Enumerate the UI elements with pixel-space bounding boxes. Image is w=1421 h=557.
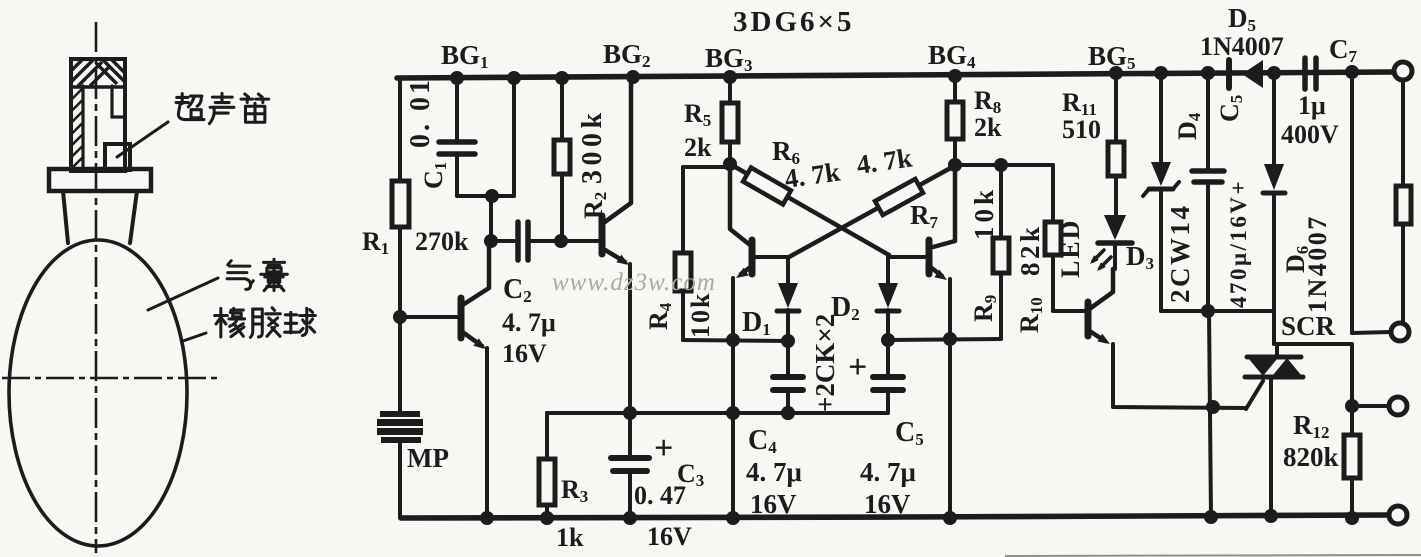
bulb device vertical centerline [95,22,98,553]
diode D5 on rail [1226,60,1232,88]
transistor BG5 [1085,302,1092,336]
svg-text:82k: 82k [1015,223,1045,276]
output terminal 1 [1394,62,1412,80]
svg-text:2k: 2k [974,113,1002,142]
resistor R3 [545,413,549,459]
svg-text:1N4007: 1N4007 [1303,214,1332,313]
resistor R1 [392,181,409,227]
resistor R12 [1344,435,1360,478]
resistor R5 [728,77,732,103]
capacitor C3 [628,413,632,456]
transistor BG4 [933,165,955,247]
bulb neck [63,191,68,243]
svg-text:4. 7μ: 4. 7μ [860,457,916,487]
svg-text:16V: 16V [502,339,547,368]
BG4 base wire [890,255,928,259]
resistor R10 [1051,165,1055,222]
svg-text:400V: 400V [1281,120,1339,149]
resistor R2 [560,78,564,140]
top supply rail wire [397,72,1392,78]
wire timing node horizontal [547,411,888,415]
transistor BG1 [402,315,458,319]
resistor R9 [999,165,1003,238]
svg-text:3DG6×5: 3DG6×5 [733,6,855,38]
svg-text:0. 01: 0. 01 [405,77,436,148]
svg-text:1N4007: 1N4007 [1200,32,1284,61]
node dot BG1 emitter ground [480,511,494,525]
capacitor C5 [886,340,890,375]
diode D2 [886,257,890,283]
svg-text:10k: 10k [969,186,999,240]
wire R3-C3 top [547,411,630,415]
capacitor C1 [455,78,459,140]
resistor R6 diagonal [730,164,889,255]
svg-text:10k: 10k [686,292,715,338]
svg-text:4. 7μ: 4. 7μ [746,457,802,487]
wire C1 to node [457,194,514,198]
svg-text:+: + [848,349,867,386]
svg-text:0. 47: 0. 47 [634,481,686,510]
capacitor C6 electrolytic [1206,73,1210,169]
whistle body cylinder [71,59,125,171]
svg-text:SCR: SCR [1281,311,1336,341]
svg-text:+: + [654,430,673,467]
wire node down to BG1 collector [489,196,493,242]
svg-text:2CW14: 2CW14 [1165,204,1195,304]
LED D3 [1104,215,1126,240]
vertical wire from rail x514 [512,78,516,196]
BG3 base wire [753,255,788,259]
label 球 [285,308,316,335]
wire D2 to R9 bottom [888,339,1001,340]
svg-text:MP: MP [407,443,449,473]
right vertical wire from rail [1350,72,1354,333]
svg-text:16V: 16V [750,489,797,519]
svg-text:4. 7μ: 4. 7μ [502,308,556,337]
resistor R4 [683,165,730,169]
svg-text:+2CK×2: +2CK×2 [810,314,840,412]
output terminal 4 [1389,506,1407,524]
label 胶 [250,308,280,338]
label 囊 [261,259,288,290]
node dot BG1 base [393,310,407,324]
rubber bulb ellipse [9,240,187,546]
whistle inner wall line [81,86,84,171]
wire SCR top to right vertical [1274,342,1352,346]
resistor R11 [1114,73,1118,142]
triac SCR [1275,344,1279,357]
label 声 [209,93,233,123]
label 橡 [215,308,245,337]
leader line to bulb lower [183,333,206,341]
label 气 [227,261,253,290]
rail junction dots [450,71,464,85]
wire to output terminal 3 [1352,404,1389,408]
svg-text:16V: 16V [864,489,911,519]
whistle hatched cap [71,59,125,87]
svg-text:820k: 820k [1283,442,1339,472]
capacitor C2 [484,234,498,248]
svg-text:16V: 16V [647,522,692,551]
svg-text:510: 510 [1062,115,1101,144]
bottom ground rail wire [401,515,1389,518]
svg-text:270k: 270k [415,227,469,256]
whistle mouth block [105,144,130,170]
wire R4 bottom to D1 [683,340,788,341]
wire BG4 node to R10 [955,163,1053,167]
resistor R8 [953,76,957,102]
wire down to R12 [1350,344,1354,435]
transistor BG3 [730,164,750,245]
capacitor C4 [786,341,790,375]
svg-text:2k: 2k [684,133,712,162]
scan artifact bottom edge line [1005,555,1421,556]
load resistor right side [1401,80,1405,186]
diode D1 [786,257,790,283]
svg-text:LED: LED [1056,219,1085,278]
whistle window step [110,86,113,117]
resistor R7 diagonal [789,165,956,257]
capacitor C7 on rail [1302,58,1308,89]
whistle flange [49,169,151,191]
label 超 [176,94,204,120]
bulb device horizontal centerline [2,377,219,380]
zener diode D4 [1159,73,1163,162]
wire zener bottom bus [1161,309,1274,313]
svg-text:www.dz3w.com: www.dz3w.com [552,269,716,296]
diode D6 [1272,73,1276,164]
microphone MP [377,411,423,443]
transistor BG2 [599,216,606,254]
svg-text:1k: 1k [556,523,584,552]
whistle left wall hatch ticks [71,88,83,169]
node dot C1 bottom [485,189,499,203]
SCR gate wire [1246,381,1263,409]
label 笛 [241,94,269,122]
leader line to bulb upper [148,278,218,310]
svg-text:470μ/16V+: 470μ/16V+ [1226,179,1251,308]
output terminal 2 [1391,323,1409,341]
left vertical wire [398,78,402,181]
svg-text:1μ: 1μ [1298,91,1326,120]
output terminal 3 [1389,397,1407,415]
svg-text:300k: 300k [577,108,608,184]
leader line to whistle [117,122,168,157]
